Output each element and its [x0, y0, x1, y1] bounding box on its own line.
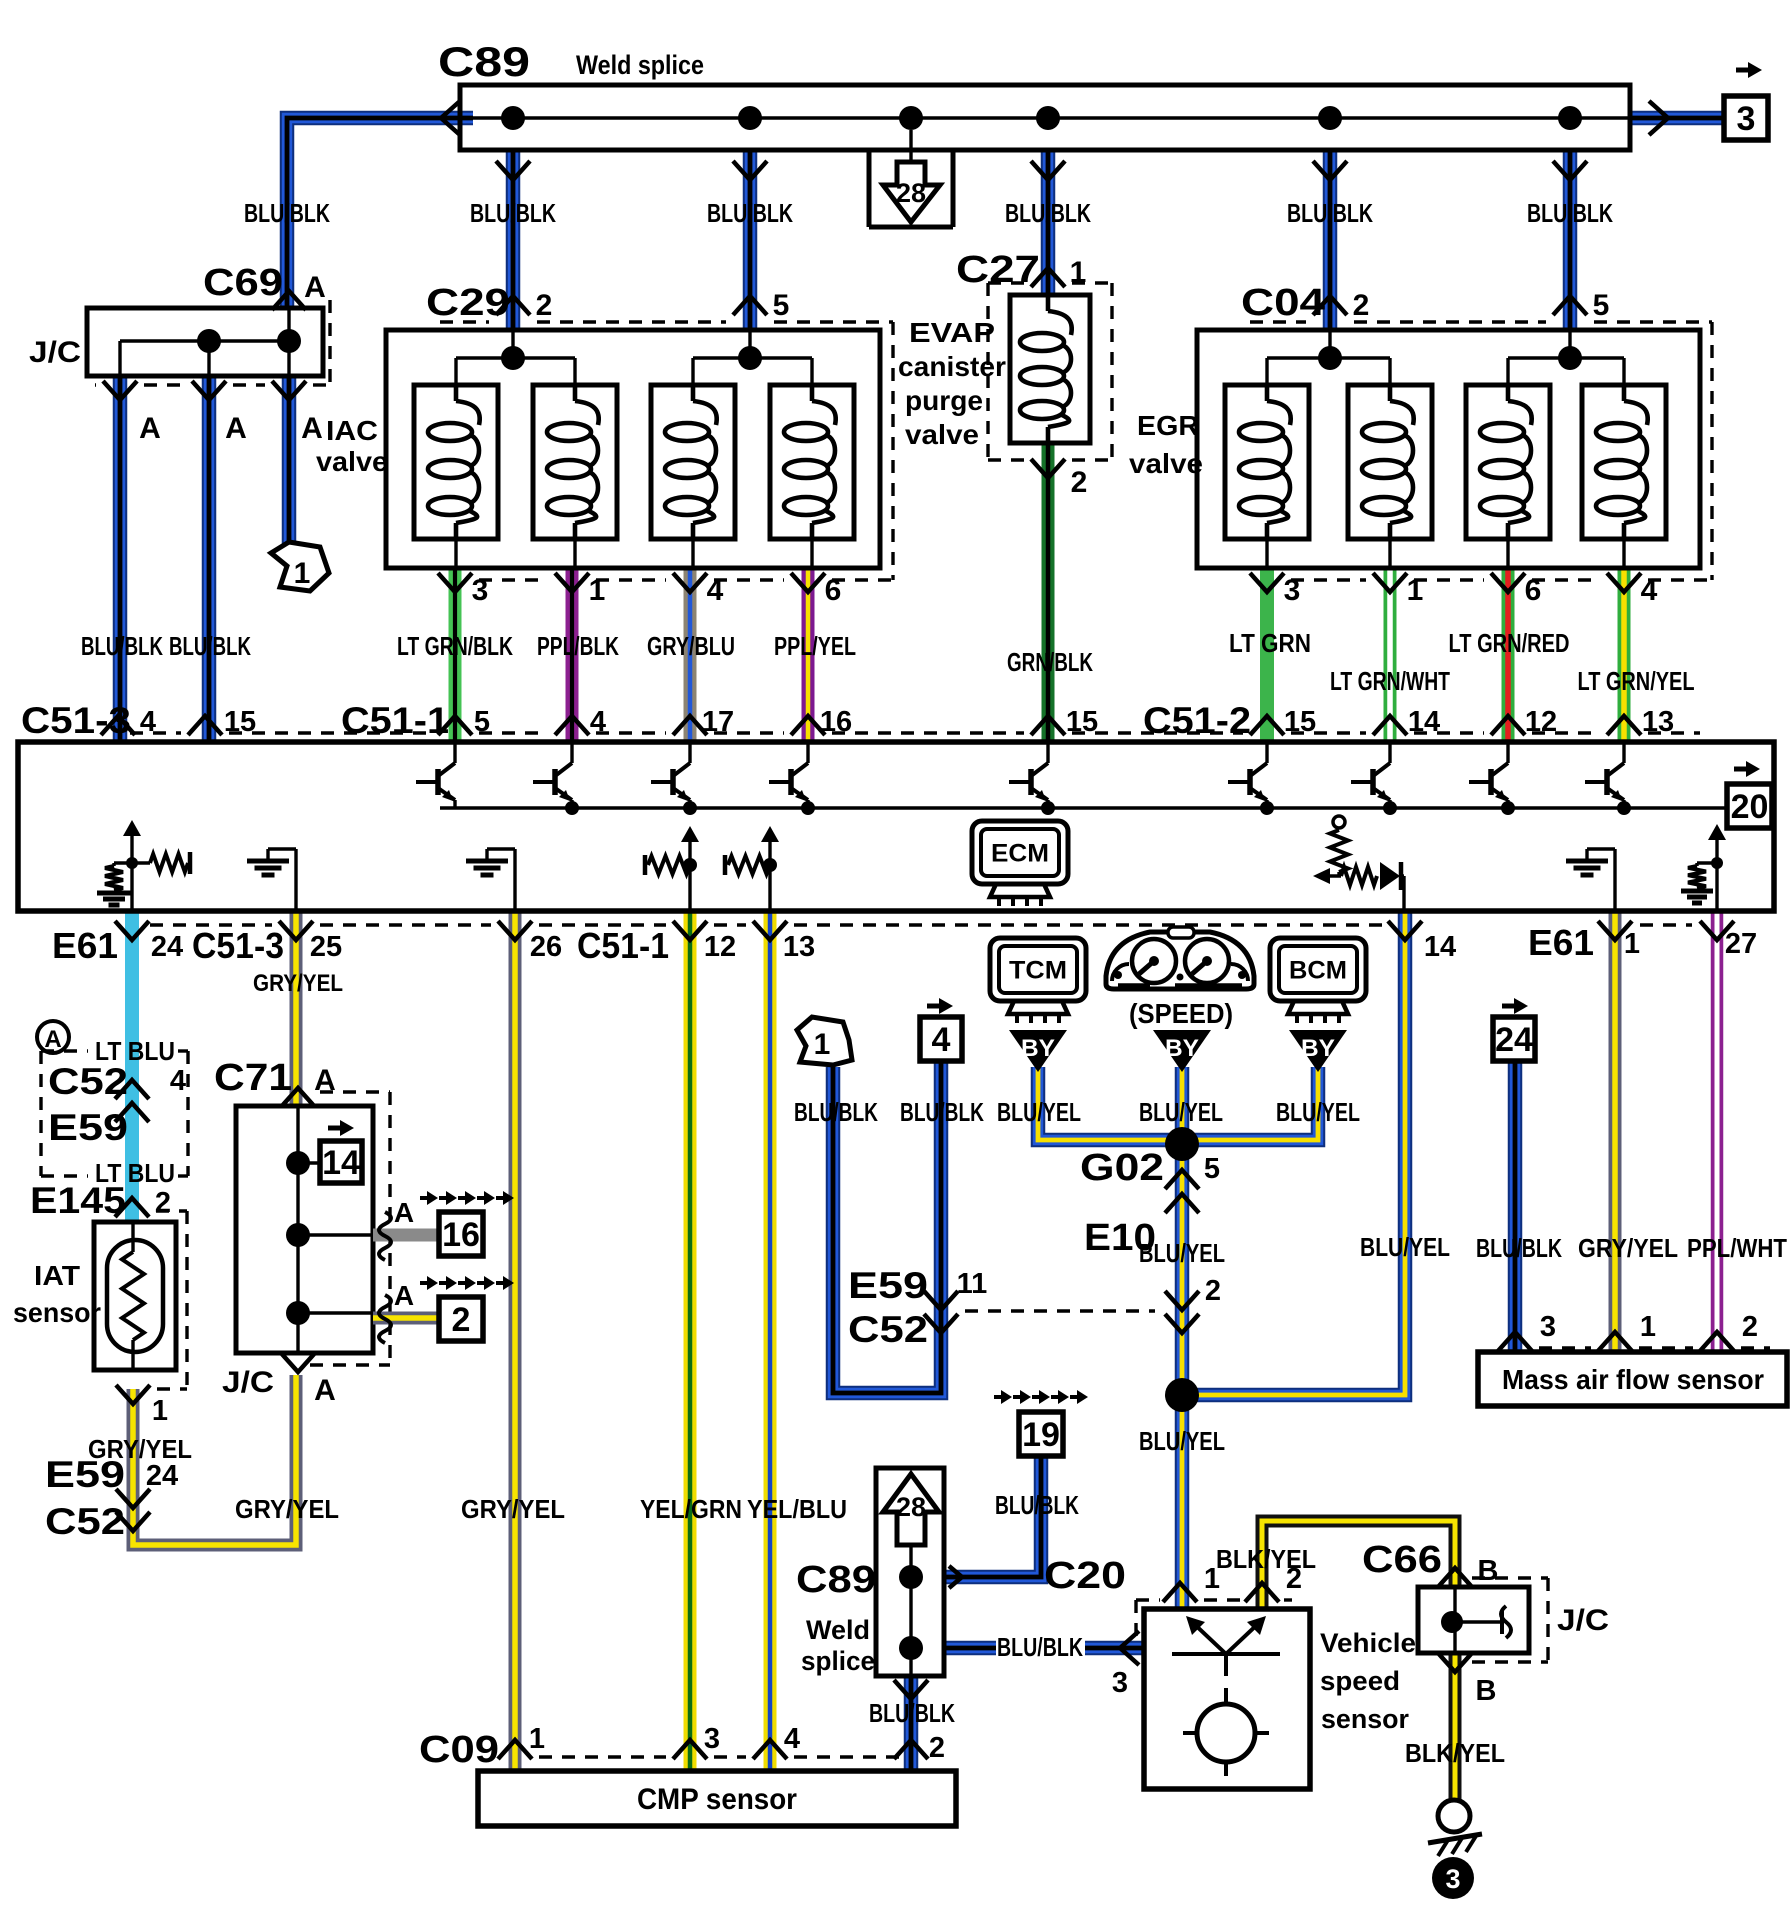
svg-text:28: 28	[896, 178, 926, 208]
connector C52 E59 dashed box	[41, 1051, 188, 1176]
svg-text:BLU/YEL: BLU/YEL	[1276, 1097, 1360, 1127]
svg-text:BLK/YEL: BLK/YEL	[1216, 1544, 1316, 1574]
svg-text:1: 1	[1070, 256, 1087, 289]
wire BLU/BLK C89 weld splice to C20 pin 3 segment a	[944, 1641, 996, 1656]
connector chevron C09 at x=690	[673, 1740, 707, 1759]
wire GRN/BLK C27 pin 2 to C51-1 pin 15	[1042, 443, 1055, 742]
wire GRY/YEL E61 pin 1 to MAF pin 1	[1609, 911, 1622, 1352]
svg-text:A: A	[314, 1374, 336, 1407]
svg-text:BLU/YEL: BLU/YEL	[1139, 1238, 1225, 1268]
svg-text:C66: C66	[1362, 1539, 1442, 1581]
svg-text:15: 15	[1066, 706, 1098, 738]
wire LT GRN/RED C04 pin 6 to C51-2 pin 12	[1502, 568, 1515, 742]
svg-text:3: 3	[1737, 100, 1756, 138]
svg-text:C29: C29	[426, 282, 510, 324]
connector chevron C09 at x=770	[753, 1740, 787, 1759]
junction box C71 J/C	[236, 1106, 373, 1353]
half connector and label A to box 2	[379, 1276, 514, 1343]
svg-text:PPL/YEL: PPL/YEL	[774, 631, 856, 661]
connector row E61 C51-3 C51-1 dashed line below ECM	[150, 923, 272, 926]
svg-text:A: A	[225, 412, 247, 445]
connector IAT pin 1 chevron	[116, 1385, 168, 1427]
TCM module icon	[990, 938, 1086, 1001]
wire GRY/BLU C29 pin 4 to C51-1 pin 17	[684, 568, 697, 742]
svg-text:24: 24	[146, 1460, 178, 1492]
wire GRY/YEL IAT pin 1 to C71 J/C leg	[133, 1375, 296, 1545]
svg-text:BLU/BLK: BLU/BLK	[900, 1097, 984, 1127]
connector chevron below C89 at x=1570	[1553, 161, 1587, 180]
svg-text:GRY/YEL: GRY/YEL	[461, 1494, 565, 1524]
svg-text:BLU/BLK: BLU/BLK	[794, 1097, 878, 1127]
svg-text:EGR: EGR	[1137, 410, 1199, 441]
svg-text:Mass air flow sensor: Mass air flow sensor	[1502, 1364, 1764, 1395]
transistor Q2 in ECM at x=572	[533, 742, 579, 815]
connector chevron C51 row at x=455	[438, 716, 472, 735]
svg-text:LT GRN/YEL: LT GRN/YEL	[1578, 666, 1695, 696]
connector chevron C51 row at x=1508	[1491, 716, 1525, 735]
half connector on wire from 19 to C89	[949, 1566, 962, 1588]
connector C71 pin A bottom chevron	[281, 1353, 336, 1407]
labels C52 4 E59	[48, 1061, 186, 1148]
ECM internal pin 26 ground	[513, 849, 516, 911]
connector chevron below C89 at x=1330	[1313, 161, 1347, 180]
svg-text:Weld splice: Weld splice	[576, 50, 704, 80]
svg-text:speed: speed	[1320, 1666, 1400, 1696]
wire LT GRN/YEL C04 pin 4 to C51-2 pin 13	[1618, 568, 1631, 742]
wire BLU/YEL speedometer through G02 E10 to C20 pin 1	[1175, 1067, 1190, 1609]
labels and pin numbers below ECM	[52, 922, 1757, 966]
wire PPL/YEL C29 pin 6 to C51-1 pin 16	[802, 568, 815, 742]
svg-text:2: 2	[155, 1187, 171, 1219]
wire BLU/BLK C69 pin A to C51-3 pin 15	[202, 376, 217, 742]
ECM internal pin 1 ground	[1613, 849, 1616, 911]
connector chevron below C89 at x=1048	[1031, 161, 1065, 180]
svg-text:PPL/BLK: PPL/BLK	[537, 631, 619, 661]
label C20 and pin numbers	[1044, 1555, 1302, 1699]
svg-text:15: 15	[1284, 706, 1316, 738]
connector chevron C89 left entry	[441, 101, 460, 135]
wire BLU/BLK C89 to C04 pin 5	[1563, 150, 1578, 330]
svg-text:GRY/YEL: GRY/YEL	[253, 970, 343, 997]
IAC valve C29 box	[386, 330, 880, 568]
weld splice C89 box	[460, 85, 1630, 227]
connector chevron C51 row at x=1390	[1373, 716, 1407, 735]
svg-text:BLK/YEL: BLK/YEL	[1405, 1738, 1505, 1768]
wire BLU/BLK box 24 to MAF pin 3	[1508, 1062, 1523, 1352]
connector chevron C09 at x=515	[498, 1740, 532, 1759]
IAT sensor box and thermistor	[94, 1222, 176, 1370]
svg-text:2: 2	[1205, 1275, 1221, 1307]
svg-text:BLU/BLK: BLU/BLK	[1476, 1233, 1562, 1263]
svg-text:C51-2: C51-2	[1143, 700, 1251, 741]
connector chevron MAF at x=1717	[1700, 1332, 1734, 1351]
svg-text:A: A	[394, 1197, 414, 1228]
connector chevron C69 pin A bottom x=289	[272, 381, 306, 400]
wire BLU/BLK C69 pin A to flag 1	[282, 376, 297, 545]
wire LT GRN C04 pin 3 to C51-2 pin 15	[1260, 568, 1274, 742]
wire BLU/BLK flag 1 loop to box 4	[833, 1061, 941, 1393]
svg-text:A: A	[301, 412, 323, 445]
IAC valve coil 2	[533, 385, 617, 568]
connector chevron C20 pin 2	[1245, 1583, 1279, 1602]
vehicle speed sensor internals	[1172, 1616, 1280, 1776]
connector IAT dashed outline	[156, 1211, 187, 1389]
ECM internal pin 13 resistor to arrow	[725, 826, 779, 911]
svg-text:YEL/GRN: YEL/GRN	[640, 1494, 742, 1524]
svg-text:GRY/BLU: GRY/BLU	[647, 631, 735, 661]
connector chevron C89 right exit	[1649, 101, 1668, 135]
transistor Q5 in ECM at x=1048	[1009, 742, 1055, 815]
svg-text:J/C: J/C	[1557, 1604, 1609, 1637]
IAC valve coil 1	[414, 385, 498, 568]
svg-text:C71: C71	[214, 1057, 292, 1099]
svg-text:BLU/BLK: BLU/BLK	[169, 631, 251, 661]
node box 2	[439, 1297, 483, 1341]
svg-text:GRY/YEL: GRY/YEL	[1578, 1233, 1678, 1263]
svg-text:A: A	[304, 271, 326, 304]
svg-text:BY: BY	[1165, 1035, 1199, 1062]
connector chevron below ECM at x=770	[753, 921, 787, 940]
connector MAF dashed line	[1539, 1346, 1591, 1349]
svg-text:BLU/BLK: BLU/BLK	[81, 631, 163, 661]
BCM module icon	[1270, 938, 1366, 1001]
circle A marker	[37, 1021, 69, 1053]
wire PPL/BLK C29 pin 1 to C51-1 pin 4	[566, 568, 579, 742]
svg-text:3: 3	[1284, 574, 1301, 607]
svg-text:20: 20	[1731, 788, 1769, 826]
wire BLU/BLK C89 right exit to box 3	[1630, 111, 1722, 126]
node box 19	[1019, 1412, 1063, 1456]
svg-text:PPL/WHT: PPL/WHT	[1687, 1233, 1787, 1263]
EGR valve coil 2	[1348, 385, 1432, 568]
svg-text:4: 4	[932, 1021, 951, 1059]
svg-text:C89: C89	[438, 38, 530, 85]
svg-text:J/C: J/C	[29, 336, 81, 369]
transistor Q7 in ECM at x=1390	[1351, 742, 1397, 815]
svg-text:26: 26	[530, 931, 562, 963]
svg-text:12: 12	[1525, 706, 1557, 738]
svg-text:2: 2	[1071, 466, 1088, 499]
wire GRY/YEL C51-3 pin 25 to C71 pin A	[290, 911, 303, 1106]
svg-text:1: 1	[1407, 574, 1424, 607]
connector chevron C51 row at x=118	[101, 716, 135, 735]
connector chevron MAF at x=1515	[1498, 1332, 1532, 1351]
inline connector G02 E10 pin 5	[1080, 1147, 1220, 1259]
svg-text:Vehicle: Vehicle	[1320, 1628, 1416, 1658]
svg-text:BLU/BLK: BLU/BLK	[1005, 198, 1091, 228]
BY triangle under BCM	[1289, 1030, 1347, 1072]
svg-text:24: 24	[1495, 1021, 1533, 1059]
svg-text:E61: E61	[1528, 922, 1594, 963]
svg-text:valve: valve	[1129, 448, 1203, 479]
connector C04 bottom chevrons and pin numbers	[1250, 573, 1658, 607]
node box 14 with arrow in C71	[320, 1120, 362, 1183]
svg-text:3: 3	[1112, 1667, 1128, 1699]
wire BLK/YEL C20 pin 2 to C66 pin B	[1262, 1521, 1455, 1609]
wire BLK/YEL C66 pin B to ground 3	[1449, 1653, 1462, 1799]
svg-text:C51-3: C51-3	[192, 925, 284, 966]
wire BLU/BLK C89 weld splice to C20 pin 3 segment b	[1085, 1641, 1144, 1656]
connector C66 pin B top	[1438, 1555, 1498, 1587]
wire GRAY C71 to box 16	[373, 1229, 439, 1242]
chain arrows above box 19	[994, 1395, 1002, 1399]
IAC valve coil 3	[651, 385, 735, 568]
svg-text:BLU/YEL: BLU/YEL	[1360, 1232, 1450, 1262]
connector chevron below C89 vertical	[894, 1680, 928, 1699]
svg-text:BLU/YEL: BLU/YEL	[1139, 1097, 1223, 1127]
svg-text:IAT: IAT	[34, 1260, 80, 1291]
svg-text:splice: splice	[801, 1646, 875, 1676]
connector C27 pin 1 chevron	[1031, 256, 1086, 289]
svg-text:4: 4	[590, 706, 606, 738]
connector chevron MAF at x=1615	[1598, 1332, 1632, 1351]
svg-text:4: 4	[140, 706, 156, 738]
wire BLU/BLK C89 to C29 pin 2	[506, 150, 521, 330]
svg-text:Weld: Weld	[806, 1615, 870, 1645]
svg-text:3: 3	[704, 1723, 720, 1755]
svg-text:ECM: ECM	[991, 840, 1049, 868]
half connector and label A to box 16	[379, 1191, 514, 1260]
connector chevron C51 row at x=205	[188, 716, 222, 735]
svg-text:11: 11	[957, 1268, 988, 1300]
vehicle speed sensor box	[1144, 1609, 1310, 1789]
wire YEL/GRN C51-1 pin 12 to C09 pin 3	[684, 911, 697, 1771]
svg-text:E59: E59	[48, 1107, 128, 1148]
svg-text:5: 5	[474, 706, 490, 738]
IAC valve coil 4	[770, 385, 854, 568]
wire BLU/YEL TCM to junction G02	[1038, 1067, 1182, 1140]
svg-text:E59: E59	[848, 1265, 928, 1306]
svg-text:J/C: J/C	[222, 1366, 274, 1399]
connector C66 pin B bottom	[1438, 1653, 1496, 1707]
svg-text:B: B	[1478, 1555, 1499, 1587]
svg-text:6: 6	[1525, 574, 1542, 607]
svg-text:LT GRN/WHT: LT GRN/WHT	[1330, 666, 1450, 696]
wire BLU/BLK C89 to C27 pin 1	[1041, 150, 1056, 295]
svg-text:C27: C27	[956, 249, 1040, 291]
EVAP canister purge valve C27	[1010, 295, 1090, 443]
CMP sensor box	[478, 1771, 956, 1826]
connector C29 top chevrons and pin numbers	[496, 289, 789, 322]
BY triangle under TCM	[1009, 1030, 1067, 1072]
connector C71 pin A top chevron	[281, 1064, 336, 1107]
wire PPL/WHT E61 pin 27 to MAF pin 2	[1711, 911, 1724, 1352]
EGR valve coil 4	[1582, 385, 1666, 568]
connector chevron C51 row at x=1267	[1250, 716, 1284, 735]
svg-text:4: 4	[1641, 574, 1658, 607]
connector C20 dashed line	[1136, 1600, 1292, 1636]
svg-text:5: 5	[773, 289, 790, 322]
EGR valve coil 1	[1225, 385, 1309, 568]
connector E145 pin 2 chevron	[30, 1180, 171, 1221]
svg-text:2: 2	[1742, 1311, 1758, 1343]
flag 1 harness pointer to BLU/BLK	[797, 1017, 852, 1065]
transistor Q1 in ECM at x=455	[416, 742, 455, 808]
svg-text:B: B	[1476, 1675, 1497, 1707]
node box 20 with arrow	[1727, 761, 1772, 828]
svg-text:GRN/BLK: GRN/BLK	[1007, 647, 1093, 677]
connector chevron below ECM at x=1717	[1700, 921, 1734, 940]
svg-text:15: 15	[224, 706, 256, 738]
BY triangle under speedometer	[1153, 1030, 1211, 1072]
ECM module icon	[972, 821, 1068, 906]
transistor Q9 in ECM at x=1624	[1585, 742, 1631, 815]
svg-text:CMP sensor: CMP sensor	[637, 1783, 797, 1816]
svg-text:GRY/YEL: GRY/YEL	[235, 1494, 339, 1524]
transistor Q8 in ECM at x=1508	[1469, 742, 1515, 815]
connector C04 dashed outline	[1250, 322, 1712, 580]
svg-text:24: 24	[151, 931, 183, 963]
svg-text:TCM: TCM	[1009, 957, 1067, 985]
svg-text:1: 1	[294, 557, 311, 590]
svg-text:14: 14	[1424, 931, 1456, 963]
ECM internal pin 14 diode resistor network	[1313, 816, 1404, 911]
connector chevron C51 row at x=1048	[1031, 716, 1065, 735]
svg-text:BY: BY	[1301, 1035, 1335, 1062]
svg-text:BLU/BLK: BLU/BLK	[995, 1490, 1079, 1520]
svg-text:BLU/YEL: BLU/YEL	[1139, 1426, 1225, 1456]
wire BLU/BLK C89 to C04 pin 2	[1323, 150, 1338, 330]
labels A at C69 bottom pins	[139, 412, 323, 445]
svg-text:1: 1	[814, 1028, 831, 1061]
svg-text:14: 14	[322, 1144, 360, 1182]
transistor Q6 in ECM at x=1267	[1228, 742, 1274, 815]
svg-text:2: 2	[929, 1732, 945, 1764]
svg-text:A: A	[139, 412, 161, 445]
svg-text:BLU/BLK: BLU/BLK	[244, 198, 330, 228]
svg-text:IAC: IAC	[326, 415, 378, 446]
svg-text:4: 4	[170, 1065, 186, 1097]
connector C29 dashed outline	[440, 322, 893, 580]
connector chevron C69 pin A top	[272, 271, 326, 310]
svg-text:C04: C04	[1241, 282, 1325, 324]
connector chevron C69 pin A bottom x=120	[103, 381, 137, 400]
connector chevron C20 pin 1	[1163, 1583, 1197, 1602]
svg-text:BCM: BCM	[1289, 957, 1347, 985]
svg-text:25: 25	[310, 931, 342, 963]
wire BLU/BLK box 19 to C89 weld splice	[944, 1456, 1041, 1577]
ground G3 symbol	[1428, 1800, 1482, 1899]
wire BLU/BLK C89 weld splice to C09 pin 2	[904, 1678, 919, 1771]
svg-text:sensor: sensor	[1321, 1704, 1409, 1734]
svg-text:2: 2	[536, 289, 553, 322]
svg-text:valve: valve	[905, 419, 979, 450]
svg-text:3: 3	[1445, 1864, 1460, 1894]
svg-text:E59: E59	[45, 1454, 125, 1495]
transistor Q3 in ECM at x=690	[651, 742, 697, 815]
connector chevron below ECM at x=132	[115, 921, 149, 940]
svg-text:28: 28	[896, 1492, 926, 1522]
svg-text:LT GRN: LT GRN	[1229, 628, 1311, 658]
wire LT GRN/BLK C29 pin 3 to C51-1 pin 5	[449, 568, 462, 742]
MAF pin numbers	[1540, 1311, 1758, 1343]
svg-text:19: 19	[1022, 1416, 1060, 1454]
svg-text:C09: C09	[419, 1729, 499, 1771]
svg-text:16: 16	[442, 1216, 480, 1254]
svg-text:1: 1	[152, 1395, 168, 1427]
svg-text:6: 6	[825, 574, 842, 607]
junction box C69 J/C	[87, 308, 323, 376]
ECM internal pin 27 resistor ground and arrow	[1681, 824, 1726, 911]
inline connector chevrons C52 E59 pin 4	[115, 1080, 149, 1099]
connector C09 dashed line	[539, 1755, 666, 1758]
svg-text:BLU/BLK: BLU/BLK	[707, 198, 793, 228]
svg-text:E61: E61	[52, 925, 118, 966]
node box 24 with arrow	[1493, 998, 1535, 1061]
connector chevron below C89 at x=513	[496, 161, 530, 180]
ECM box	[18, 742, 1774, 911]
connector chevron below ECM at x=515	[498, 921, 532, 940]
svg-text:C51-1: C51-1	[341, 700, 449, 741]
svg-text:BLU/BLK: BLU/BLK	[869, 1698, 955, 1728]
connector chevron C51 row at x=1624	[1607, 716, 1641, 735]
junction dot G02	[1165, 1127, 1199, 1161]
svg-text:BLU/BLK: BLU/BLK	[1287, 198, 1373, 228]
wire BLU/YEL ECM pin 14 to junction	[1182, 911, 1405, 1395]
connector chevron C51 row at x=572	[555, 716, 589, 735]
node box 4 with arrow	[920, 998, 962, 1061]
svg-text:4: 4	[784, 1723, 800, 1755]
ECM internal pin 12 resistor to arrow	[645, 826, 699, 911]
svg-text:4: 4	[707, 574, 724, 607]
connector chevron C51 row at x=690	[673, 716, 707, 735]
node box 3 top right with arrow	[1724, 62, 1768, 140]
svg-text:BLU/YEL: BLU/YEL	[997, 1097, 1081, 1127]
svg-text:C51-1: C51-1	[577, 925, 669, 966]
connector chevron below ECM at x=296	[279, 921, 313, 940]
transistor Q4 in ECM at x=808	[769, 742, 815, 815]
wire BLU/BLK from C89 to C69 pin A	[287, 118, 473, 308]
label C09 and pin numbers	[419, 1723, 945, 1771]
svg-text:1: 1	[529, 1723, 545, 1755]
svg-text:G02: G02	[1080, 1147, 1164, 1189]
svg-text:12: 12	[704, 931, 736, 963]
svg-text:3: 3	[472, 574, 489, 607]
svg-text:purge: purge	[905, 385, 983, 416]
wire YEL/BLU C51-1 pin 13 to C09 pin 4	[764, 911, 777, 1771]
svg-text:3: 3	[1540, 1311, 1556, 1343]
svg-text:(SPEED): (SPEED)	[1129, 998, 1233, 1029]
wire GRY/YEL C51-3 pin 26 to C09 pin 1	[509, 911, 522, 1771]
dashed link E59-C52 to E10-C52	[965, 1309, 1155, 1312]
connector chevron C69 pin A bottom x=209	[192, 381, 226, 400]
svg-text:C69: C69	[203, 262, 283, 304]
svg-text:LT GRN/RED: LT GRN/RED	[1449, 628, 1570, 658]
inline connector E59 C52 pin 11	[848, 1265, 987, 1350]
svg-text:BLU/BLK: BLU/BLK	[470, 198, 556, 228]
svg-text:sensor: sensor	[13, 1297, 101, 1328]
connector chevron below ECM at x=1405	[1388, 921, 1422, 940]
connector row C51-3 C51-1 C51-2 dashed line	[130, 731, 181, 734]
connector C71 dashed outline	[310, 1092, 390, 1365]
connector C66 dashed outline	[1472, 1578, 1548, 1662]
C69 connector dashed outline	[95, 300, 330, 385]
label BLU/BLK row under C89	[244, 198, 1613, 228]
ECM internal pin 24 pull-up resistor and ground	[97, 820, 190, 911]
svg-text:EVAP: EVAP	[909, 317, 995, 348]
junction box C66 J/C	[1418, 1587, 1529, 1653]
wire LT GRN/WHT C04 pin 1 to C51-2 pin 14	[1384, 568, 1397, 742]
svg-text:1: 1	[1624, 928, 1640, 960]
flag 1 harness pointer near C69	[271, 542, 329, 591]
svg-text:YEL/BLU: YEL/BLU	[747, 1494, 847, 1524]
svg-text:C20: C20	[1044, 1555, 1126, 1597]
svg-text:A: A	[394, 1280, 414, 1311]
connector C04 top chevrons and pin numbers	[1313, 289, 1609, 322]
EGR valve C04 box	[1197, 330, 1700, 568]
wire LT BLU E61 pin 24 to IAT sensor	[125, 911, 139, 1222]
Mass air flow sensor box	[1478, 1352, 1787, 1406]
